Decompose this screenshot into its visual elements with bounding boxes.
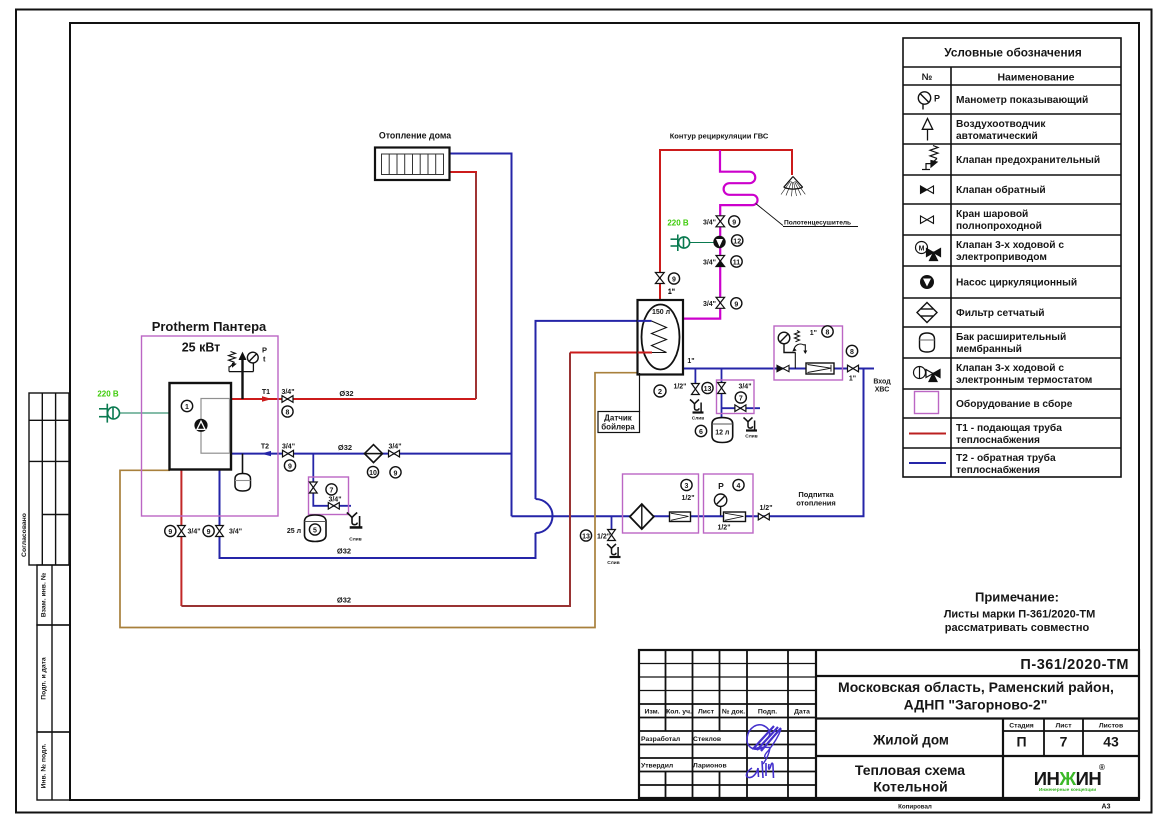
power plug 220V boiler (99, 404, 120, 423)
membrane tank 5 (25 l) (305, 515, 327, 542)
legend symbol: ball valve (921, 216, 934, 223)
equipment box Protherm (pink) (142, 336, 279, 516)
svg-text:Датчик: Датчик (604, 414, 633, 423)
svg-text:Листов: Листов (1099, 723, 1123, 730)
svg-text:АДНП "Загорново-2": АДНП "Загорново-2" (904, 697, 1048, 713)
svg-text:1": 1" (810, 330, 817, 337)
valve 1/2 makeup (758, 513, 769, 520)
svg-text:220 В: 220 В (97, 390, 119, 399)
svg-text:Листы марки П-361/2020-ТМ: Листы марки П-361/2020-ТМ (944, 609, 1096, 621)
svg-text:Примечание:: Примечание: (975, 590, 1059, 605)
recirculation pump 12 (713, 236, 725, 248)
group 3: water meter (670, 512, 691, 522)
svg-text:П: П (1016, 734, 1026, 750)
svg-text:Подп. и дата: Подп. и дата (41, 657, 48, 700)
node 9 circled left (165, 525, 176, 536)
approval table (29, 393, 69, 565)
svg-text:рассматривать совместно: рассматривать совместно (945, 622, 1090, 634)
valve 3/4 bottom of recirc riser (716, 297, 725, 308)
node 9 circled left (203, 525, 214, 536)
svg-text:Инженерные концепции: Инженерные концепции (1039, 787, 1096, 793)
group 4: water meter (724, 512, 746, 522)
power plug 220V pump (671, 235, 690, 252)
wire power to boiler (green) (120, 412, 170, 414)
svg-text:Изм.: Изм. (644, 709, 659, 716)
svg-text:теплоснабжения: теплоснабжения (956, 434, 1040, 446)
node 13 circled (702, 382, 713, 393)
svg-text:3/4": 3/4" (703, 301, 716, 308)
svg-text:А3: А3 (1102, 804, 1111, 811)
svg-text:P: P (934, 94, 940, 104)
wire boiler bottom red down (red) (180, 470, 182, 607)
svg-text:бойлера: бойлера (601, 423, 635, 432)
svg-text:9: 9 (672, 277, 676, 284)
node 3 circled (681, 479, 692, 490)
hot water tank 150 l (638, 300, 684, 375)
svg-text:T2: T2 (261, 444, 269, 451)
svg-text:Полотенцесушитель: Полотенцесушитель (784, 220, 851, 227)
svg-text:Слив: Слив (745, 434, 757, 440)
svg-text:8: 8 (850, 349, 854, 356)
wire T2 return boiler (blue) (231, 453, 512, 455)
wire T1 riser to radiator (dark red) (475, 172, 477, 399)
svg-text:№: № (922, 72, 933, 83)
svg-text:220 В: 220 В (667, 219, 689, 228)
svg-text:Слив: Слив (692, 416, 704, 422)
ball valve 1" on cold inlet (848, 365, 859, 372)
svg-text:Оборудование в сборе: Оборудование в сборе (956, 398, 1073, 410)
svg-text:25 л: 25 л (287, 528, 301, 535)
node 11 circled (731, 256, 742, 267)
ball valve horizontal group 7 (735, 405, 746, 412)
expansion vessel on T2 (242, 454, 244, 474)
svg-text:3/4": 3/4" (388, 444, 401, 451)
group 8: water meter (806, 363, 834, 374)
svg-text:13: 13 (582, 534, 590, 541)
valve on blue bottom pipe (216, 526, 224, 537)
svg-text:Ø32: Ø32 (337, 547, 351, 556)
wire bottom red run (dark red) (181, 353, 570, 607)
svg-text:электронным термостатом: электронным термостатом (956, 375, 1092, 386)
wire power to pump 12 (green) (690, 242, 714, 244)
legend symbol: 3-way valve with thermostat (914, 367, 941, 382)
wire crossing bridge (blue arc) (536, 499, 553, 533)
svg-text:1": 1" (668, 289, 675, 296)
svg-text:3: 3 (685, 483, 689, 490)
svg-text:3/4": 3/4" (282, 444, 295, 451)
svg-text:5: 5 (313, 528, 317, 535)
svg-text:Вход: Вход (873, 379, 891, 386)
svg-text:Фильтр сетчатый: Фильтр сетчатый (956, 308, 1045, 319)
svg-text:Т2 - обратная труба: Т2 - обратная труба (956, 452, 1056, 464)
svg-text:Клапан предохранительный: Клапан предохранительный (956, 155, 1100, 166)
node 8 circled outside (846, 345, 857, 356)
group 8: manometer (778, 332, 795, 352)
sensor label box (598, 412, 640, 433)
svg-text:1/2": 1/2" (673, 384, 686, 391)
svg-text:®: ® (1099, 763, 1105, 772)
svg-text:9: 9 (394, 470, 398, 477)
wire recirculation magenta riser (683, 150, 758, 319)
svg-text:П-361/2020-ТМ: П-361/2020-ТМ (1020, 657, 1129, 673)
wire group 7 horizontal (blue) (722, 407, 761, 409)
svg-text:Ø32: Ø32 (337, 596, 351, 605)
svg-text:9: 9 (734, 301, 738, 308)
towel rail leader line (756, 204, 783, 226)
legend symbol: safety valve (922, 146, 938, 170)
svg-text:Утвердил: Утвердил (641, 762, 673, 769)
node 10 circled (367, 466, 378, 477)
svg-text:электроприводом: электроприводом (956, 252, 1047, 263)
svg-text:мембранный: мембранный (956, 343, 1022, 355)
svg-text:1: 1 (185, 404, 189, 411)
svg-text:Клапан обратный: Клапан обратный (956, 184, 1046, 196)
svg-text:8: 8 (826, 330, 830, 337)
svg-text:ХВС: ХВС (875, 387, 890, 394)
valve 3/4 on T1 (282, 396, 293, 403)
svg-text:Московская область, Раменский: Московская область, Раменский район, (838, 679, 1114, 695)
svg-text:4: 4 (737, 483, 741, 490)
svg-text:Разработал: Разработал (641, 735, 680, 743)
svg-text:Отопление дома: Отопление дома (379, 131, 451, 141)
wire expansion tank branch 7 (blue) (721, 369, 723, 418)
svg-text:Клапан 3-х ходовой с: Клапан 3-х ходовой с (956, 363, 1064, 374)
logo INZHIN (1034, 763, 1105, 793)
svg-text:Лист: Лист (698, 709, 715, 716)
svg-text:ИНЖИН: ИНЖИН (1034, 768, 1102, 789)
svg-text:2: 2 (658, 387, 662, 396)
manometer P t on boiler (247, 352, 258, 363)
svg-text:12 л: 12 л (715, 430, 729, 437)
valve 1/2 drain on makeup (608, 530, 616, 541)
signature scribbles (746, 725, 781, 778)
equipment box group 5 (pink) (309, 477, 349, 515)
svg-text:Стадия: Стадия (1009, 723, 1034, 730)
valve on red bottom pipe (178, 526, 186, 537)
TITLE BLOCK (639, 650, 1139, 811)
svg-text:9: 9 (288, 464, 292, 471)
svg-text:Слив: Слив (607, 560, 619, 566)
svg-text:Насос циркуляционный: Насос циркуляционный (956, 278, 1077, 289)
svg-text:43: 43 (1103, 734, 1119, 750)
wire sensor cable (brown) (120, 373, 637, 628)
node 7 circled (735, 392, 746, 403)
svg-text:Ларионов: Ларионов (693, 762, 727, 769)
LEFT MARGIN STAMP BOXES (29, 393, 70, 800)
group 8: pressure reducer (792, 331, 807, 369)
node 6 circled (695, 425, 706, 436)
filter strainer 10 on T2 (365, 445, 383, 463)
svg-text:7: 7 (330, 487, 334, 494)
valve 3/4 right of filter (389, 450, 400, 457)
boiler pump (194, 419, 207, 432)
svg-text:3/4": 3/4" (703, 260, 716, 267)
equipment box group 8 (pink) (774, 326, 843, 380)
svg-text:9: 9 (732, 219, 736, 226)
group 8: check valve (777, 365, 789, 371)
svg-text:T1: T1 (262, 389, 270, 396)
wire blue riser to tank port (536, 321, 638, 499)
LEGEND TABLE (903, 38, 1121, 477)
legend symbol: air vent (922, 119, 932, 141)
svg-text:Копировал: Копировал (898, 804, 932, 811)
wire makeup line (blue) (512, 369, 864, 517)
equipment box group 3 (pink) (623, 474, 699, 533)
box Inv no podl (37, 732, 70, 800)
node 9 circled below T2 valve (284, 460, 295, 471)
valve 1" on red recirc (655, 273, 664, 284)
valve 3/4 on T2 (283, 450, 294, 457)
boiler safety group: air vent stem (229, 353, 253, 399)
svg-text:Наименование: Наименование (997, 72, 1074, 84)
svg-text:Кол. уч.: Кол. уч. (666, 709, 692, 716)
svg-text:1": 1" (849, 376, 856, 383)
wire cold water line from tank (blue) (683, 368, 874, 370)
legend symbol: manometer (918, 92, 930, 110)
NOTE (944, 590, 1096, 635)
valve 3/4 top of recirc riser (716, 216, 725, 227)
wire boiler bottom blue to tank loop (220, 470, 536, 559)
group 5: valve on branch (309, 482, 317, 493)
svg-text:1/2": 1/2" (759, 505, 772, 512)
svg-text:7: 7 (739, 396, 743, 403)
wire DHW recirculation loop top (red) (660, 150, 792, 300)
svg-text:отопления: отопления (796, 499, 835, 508)
svg-text:Инв. № подл.: Инв. № подл. (41, 743, 48, 788)
boiler Protherm black body (152, 319, 267, 470)
svg-text:Воздухоотводчик: Воздухоотводчик (956, 119, 1046, 130)
legend symbol: expansion tank (920, 333, 935, 352)
svg-text:Лист: Лист (1055, 723, 1072, 730)
svg-text:25 кВт: 25 кВт (182, 341, 221, 355)
box Podp i data (37, 625, 70, 732)
svg-text:Подп.: Подп. (758, 709, 777, 716)
equipment box group 4 (pink) (704, 474, 754, 533)
svg-text:Условные обозначения: Условные обозначения (944, 46, 1082, 60)
svg-text:Манометр показывающий: Манометр показывающий (956, 95, 1088, 106)
svg-text:3/4": 3/4" (738, 384, 751, 391)
svg-text:Кран шаровой: Кран шаровой (956, 209, 1028, 220)
wire drain branch 13 near tank (blue) (694, 369, 696, 384)
radiator Отопление дома (375, 131, 451, 180)
svg-text:9: 9 (207, 529, 211, 536)
svg-text:Тепловая схема: Тепловая схема (855, 762, 965, 778)
svg-text:P: P (262, 346, 267, 355)
node 9 circled below (390, 467, 401, 478)
legend symbol: T2 blue line (909, 462, 946, 464)
svg-text:3/4": 3/4" (188, 529, 201, 536)
shower head (781, 177, 805, 197)
ball valve horizontal group 5 (328, 503, 339, 510)
node 4 circled (733, 479, 744, 490)
check valve 11 on recirc riser (716, 256, 725, 267)
svg-text:9: 9 (168, 529, 172, 536)
svg-text:3/4": 3/4" (703, 220, 716, 227)
svg-text:Ø32: Ø32 (338, 443, 352, 452)
svg-text:Согласовано: Согласовано (21, 513, 28, 557)
svg-text:6: 6 (699, 429, 703, 436)
svg-text:автоматический: автоматический (956, 131, 1038, 142)
legend symbol: T1 red line (909, 433, 946, 435)
svg-text:Дата: Дата (794, 709, 810, 716)
wire tank heat feed (red) (570, 352, 637, 354)
svg-text:1/2": 1/2" (597, 534, 610, 541)
node 9 circled (729, 216, 740, 227)
legend symbol: check valve (921, 186, 934, 193)
drain glyph group 5 (347, 513, 363, 528)
svg-text:1": 1" (687, 358, 694, 365)
node 8 circled inside (822, 326, 833, 337)
svg-text:Бак расширительный: Бак расширительный (956, 332, 1066, 343)
svg-text:№ док.: № док. (722, 709, 745, 716)
svg-text:Т1 - подающая труба: Т1 - подающая труба (956, 422, 1062, 434)
svg-text:Клапан 3-х ходовой с: Клапан 3-х ходовой с (956, 240, 1064, 251)
svg-text:теплоснабжения: теплоснабжения (956, 464, 1040, 476)
node 2 circled (654, 385, 666, 397)
svg-text:Ø32: Ø32 (339, 389, 353, 398)
node 13 circled (580, 530, 591, 541)
svg-text:7: 7 (1060, 734, 1068, 750)
svg-text:13: 13 (704, 386, 712, 393)
svg-text:8: 8 (286, 410, 290, 417)
svg-text:3/4": 3/4" (229, 529, 242, 536)
valve 1/2 drain near tank (692, 384, 700, 395)
svg-text:Жилой дом: Жилой дом (872, 733, 949, 748)
wire radiator return top (blue) (450, 154, 512, 517)
svg-text:Стеклов: Стеклов (693, 736, 721, 743)
legend symbol: 3-way motorized valve (916, 242, 941, 261)
wire makeup drain branch (blue) (611, 516, 613, 541)
node 5 circled (309, 524, 320, 535)
svg-text:10: 10 (369, 470, 377, 477)
legend symbol: circulation pump (920, 275, 934, 289)
svg-text:1/2": 1/2" (717, 525, 730, 532)
wire T1 supply boiler to riser (red) (231, 398, 476, 400)
group 3: filter strainer (630, 504, 654, 529)
legend symbol: strainer filter (917, 303, 937, 323)
node 12 circled (732, 235, 743, 246)
node 9 circled (731, 298, 742, 309)
svg-text:M: M (919, 246, 925, 253)
svg-text:Слив: Слив (349, 537, 361, 543)
svg-text:Взам. инв. №: Взам. инв. № (41, 573, 48, 618)
svg-text:Котельной: Котельной (873, 779, 948, 795)
node 8 circled below T1 valve (282, 406, 293, 417)
node 7 circled (326, 484, 337, 495)
node 1 circled (181, 400, 192, 411)
svg-text:150 л: 150 л (652, 309, 670, 316)
safety valve on boiler (229, 352, 237, 372)
svg-text:Protherm Пантера: Protherm Пантера (152, 319, 267, 334)
membrane tank 6 (12 l) (712, 418, 733, 443)
svg-text:Контур рециркуляции ГВС: Контур рециркуляции ГВС (670, 132, 769, 141)
svg-text:3/4": 3/4" (281, 389, 294, 396)
svg-text:12: 12 (733, 239, 741, 246)
drain glyph near tank (690, 400, 704, 413)
svg-text:11: 11 (733, 260, 741, 267)
group 7: valve vertical (718, 383, 726, 394)
drain glyph makeup (607, 544, 621, 557)
wire group 5 branch from T2 (blue) (313, 454, 351, 506)
svg-text:1/2": 1/2" (681, 495, 694, 502)
node 9 circled (668, 273, 679, 284)
equipment box group 7 (pink) (717, 380, 755, 414)
svg-text:P: P (718, 481, 724, 491)
drain glyph group 7 (744, 418, 758, 431)
box Vzam inv (37, 565, 70, 625)
legend symbol: equipment assembly (pink square) (915, 392, 939, 414)
svg-text:полнопроходной: полнопроходной (956, 221, 1042, 232)
